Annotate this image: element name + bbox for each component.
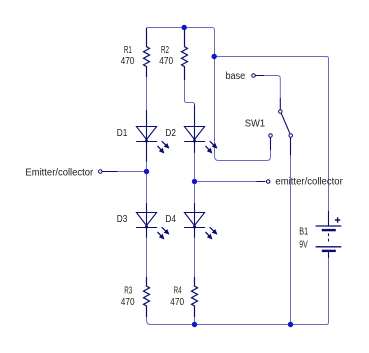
svg-text:R4: R4 xyxy=(174,286,182,297)
resistor R3 xyxy=(144,277,150,317)
svg-text:9V: 9V xyxy=(299,240,308,251)
LED D3 xyxy=(136,203,169,239)
wire base terminal to switch pole xyxy=(264,76,280,99)
wire R2 to D2 jog xyxy=(185,80,195,105)
wire bottom rail xyxy=(147,317,327,325)
resistor R2 xyxy=(182,28,188,80)
svg-text:D1: D1 xyxy=(117,128,128,139)
resistor R1 xyxy=(144,28,150,77)
svg-text:base: base xyxy=(226,71,246,82)
wire right junction to right terminal xyxy=(195,181,258,183)
LED D4 xyxy=(184,203,217,239)
battery plus sign xyxy=(335,217,340,222)
terminal Emitter/collector (left) xyxy=(99,170,118,174)
resistor R4 xyxy=(192,277,198,317)
battery B1 xyxy=(316,211,342,258)
svg-text:R1: R1 xyxy=(124,45,132,56)
wire D2 to D4 through right junction xyxy=(194,153,196,204)
node junction dot R4 bottom rail xyxy=(192,322,197,327)
svg-text:emitter/collector: emitter/collector xyxy=(275,177,343,188)
svg-text:470: 470 xyxy=(121,56,135,67)
wire R1 to D1 xyxy=(146,77,148,110)
svg-text:470: 470 xyxy=(170,297,184,308)
svg-text:470: 470 xyxy=(159,56,173,67)
wire top rail xyxy=(147,28,215,57)
svg-text:B1: B1 xyxy=(299,226,308,237)
LED D2 xyxy=(184,105,217,153)
wire D3 to R3 xyxy=(146,238,148,278)
svg-text:D4: D4 xyxy=(165,214,176,225)
svg-text:R3: R3 xyxy=(124,286,132,297)
svg-text:D2: D2 xyxy=(165,128,176,139)
wire R4 to bottom rail xyxy=(194,317,196,325)
node junction dot middle xyxy=(212,54,217,59)
terminal base xyxy=(252,74,264,78)
node left junction dot xyxy=(144,169,149,174)
svg-text:R2: R2 xyxy=(161,45,169,56)
node junction dot switch wire bottom rail xyxy=(288,322,293,327)
wire middle vertical down to switch left contact xyxy=(215,57,271,161)
wire left terminal to D1 branch xyxy=(117,171,147,173)
wire right rail below battery xyxy=(327,258,329,325)
svg-text:D3: D3 xyxy=(117,214,128,225)
node junction dot top rail xyxy=(182,25,187,30)
switch SW1 xyxy=(269,98,293,155)
svg-text:Emitter/collector: Emitter/collector xyxy=(25,167,93,178)
node right junction dot xyxy=(192,179,197,184)
wire switch right contact to bottom rail xyxy=(290,155,292,325)
wire D4 to R4 xyxy=(194,238,196,278)
svg-text:SW1: SW1 xyxy=(245,119,266,130)
wire D1 to D3 through left junction xyxy=(146,162,148,204)
wire node row2 to right rail xyxy=(215,57,329,212)
LED D1 xyxy=(136,110,169,162)
svg-text:470: 470 xyxy=(121,297,135,308)
terminal emitter/collector (right) xyxy=(257,180,270,184)
